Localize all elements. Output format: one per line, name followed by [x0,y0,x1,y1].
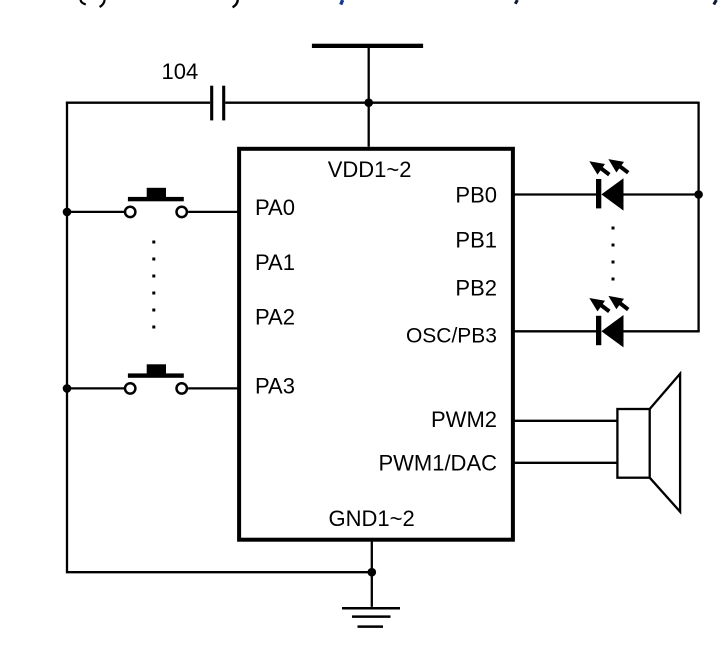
wire VDD bar to top net [368,48,370,147]
node VDD junction dot [364,98,373,107]
wire bottom net [66,571,372,573]
svg-text:PA2: PA2 [255,305,295,330]
svg-text:PB2: PB2 [455,276,497,301]
node left rail dot at PA3 [63,384,72,393]
wire button S2 to PA3 pin [188,387,239,389]
switch S2 right terminal [177,383,187,393]
switch S2 left terminal [125,383,135,393]
switch S2 bar [128,373,184,377]
wire right rail [697,102,699,332]
wire left rail to button S1 [67,211,124,213]
wire OSC/PB3 pin to LED D2 [513,330,596,332]
svg-text:PB0: PB0 [455,183,497,208]
LED D1 emission arrow 2 [608,159,628,173]
LED D1 cathode bar [596,179,601,208]
wire left rail to button S2 [67,387,124,389]
LED D1 emission arrow 1 [589,161,609,174]
switch S1 cap [147,188,166,197]
dotted ellipsis between switches [152,241,155,329]
speaker SP1 horn [650,374,680,512]
wire LED D1 to right rail [624,193,699,195]
switch S2 cap [147,364,166,373]
svg-text:PWM1/DAC: PWM1/DAC [378,451,497,476]
capacitor C1 plates [210,86,213,121]
svg-text:PWM2: PWM2 [431,407,497,432]
svg-text:OSC/PB3: OSC/PB3 [406,325,497,348]
svg-text:PA1: PA1 [255,250,295,275]
IC U1 body [239,149,513,540]
wire button S1 to PA0 pin [188,211,239,213]
switch S1 left terminal [125,207,135,217]
top cut-off caption fragment 5 [714,0,717,5]
node right rail junction dot [694,190,703,199]
LED D2 cathode bar [596,316,601,345]
switch S1 right terminal [177,207,187,217]
node ground junction dot [368,568,377,577]
VDD power rail symbol [312,44,423,48]
LED D2 emission arrow 1 [589,298,609,311]
top cut-off caption fragment 1 [100,0,105,7]
LED D2 triangle [601,315,623,347]
top cut-off caption fragment 2 [233,0,238,7]
top cut-off caption fragment 3 [341,0,343,5]
wire PWM1/DAC pin to speaker [513,462,617,464]
svg-text:PA0: PA0 [255,195,295,220]
wire top net right segment [225,102,698,104]
wire PB0 pin to LED D1 [513,193,596,195]
wire LED D2 to right rail [624,330,700,332]
LED D1 triangle [601,178,623,210]
ground symbol [342,608,400,626]
LED D2 emission arrow 2 [608,296,628,310]
wire PWM2 pin to speaker [513,420,617,422]
svg-text:PA3: PA3 [255,374,295,399]
wire GND1~2 pin to ground [371,540,373,607]
svg-text:VDD1~2: VDD1~2 [328,157,412,182]
top cut-off caption fragment 0 [81,0,86,5]
wire left rail [66,102,68,573]
svg-text:PB1: PB1 [455,228,497,253]
switch S1 bar [128,197,184,201]
node left rail dot at PA0 [63,208,72,217]
dotted ellipsis between LEDs [612,227,615,281]
speaker SP1 body [617,409,649,478]
wire top net left segment [66,102,210,104]
top cut-off caption fragment 4 [515,0,517,4]
svg-text:GND1~2: GND1~2 [329,506,415,531]
svg-text:104: 104 [162,59,199,84]
